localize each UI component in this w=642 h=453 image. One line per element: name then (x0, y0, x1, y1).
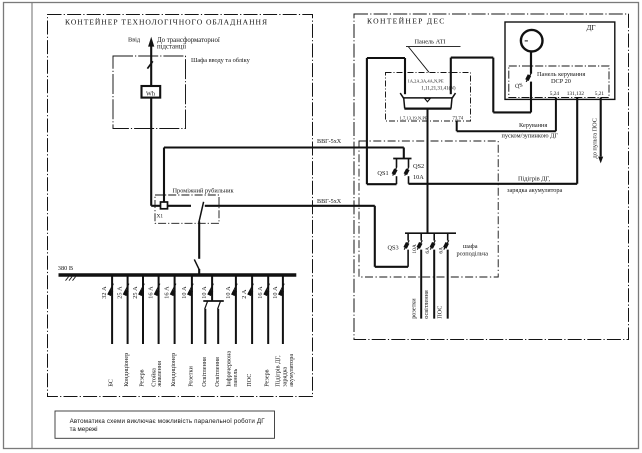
svg-text:Автоматика схеми виключає можл: Автоматика схеми виключає можливість пар… (70, 418, 266, 425)
svg-text:КОНТЕЙНЕР ДЕС: КОНТЕЙНЕР ДЕС (367, 17, 446, 26)
svg-text:5,21: 5,21 (595, 91, 605, 97)
breaker QF1 32 А blade (107, 284, 113, 296)
svg-text:6А: 6А (439, 247, 445, 254)
bus 380V (59, 273, 297, 277)
wire: branch QF4 drop from bus (158, 275, 160, 344)
wire: DCP 5,24 drop (555, 98, 557, 132)
wire: switch to DES container (ВВГ-5хХ lower) (205, 205, 375, 207)
connector X1 (157, 202, 168, 220)
svg-text:380 В: 380 В (58, 265, 73, 272)
svg-text:Панель АТІ: Панель АТІ (415, 38, 446, 45)
wire: branch QF6 drop from bus (191, 275, 193, 344)
breaker 10А (розетки) (417, 233, 423, 318)
container: КОНТЕЙНЕР ТЕХНОЛОГІЧНОГО ОБЛАДНАННЯ (dash-dot boundary) (48, 15, 313, 397)
wire: 73,74 control stub (456, 121, 458, 131)
svg-text:X1: X1 (157, 214, 164, 220)
svg-text:1,11,21,31,41(N): 1,11,21,31,41(N) (421, 87, 456, 92)
wire: generator feed into ATS right input (450, 58, 452, 95)
svg-text:131,132: 131,132 (567, 91, 585, 97)
svg-text:Розетки: Розетки (187, 366, 194, 387)
arrow: up to transformer substation (148, 37, 154, 47)
switch QS3 (403, 233, 409, 267)
svg-text:Освітлення: Освітлення (201, 357, 208, 387)
switch QS blade (generator breaker) (525, 73, 531, 82)
svg-text:пуском/зупинкою ДГ: пуском/зупинкою ДГ (502, 133, 559, 140)
svg-text:Керування: Керування (519, 122, 547, 129)
svg-text:Резерв: Резерв (139, 369, 146, 386)
container: КОНТЕЙНЕР ДЕС (dash-dot boundary) (354, 14, 629, 340)
svg-text:ДГ: ДГ (587, 24, 596, 32)
svg-text:Ввід: Ввід (128, 36, 141, 43)
breaker QF3 25 А blade (138, 284, 144, 296)
svg-text:5,24: 5,24 (550, 91, 560, 97)
svg-text:10 А: 10 А (225, 286, 232, 299)
switch blade onto bus (194, 259, 199, 269)
svg-text:16 А: 16 А (257, 286, 264, 299)
svg-text:Кондиціонер: Кондиціонер (123, 353, 130, 387)
arrow: down to POS console (598, 157, 603, 164)
wire: lower mains cable corner down (374, 206, 376, 267)
wire: branch QF7 drop from bus (211, 275, 213, 301)
wire: generator feed below QS (530, 82, 532, 113)
svg-text:Резерв: Резерв (264, 369, 271, 386)
generator G circle (521, 30, 543, 52)
svg-text:QS1: QS1 (377, 170, 388, 177)
breaker QF8 10 А blade (231, 284, 237, 296)
svg-text:10 А: 10 А (201, 286, 208, 299)
svg-text:10 А: 10 А (181, 286, 188, 299)
breaker 6А (ПОС) (443, 233, 449, 318)
wire: mains feed into QS1/QS2 from upper cable (403, 148, 405, 159)
box: ДГ generator enclosure (solid) (505, 22, 615, 99)
svg-text:Wh: Wh (146, 90, 156, 97)
wire: branch QF9 drop from bus (251, 275, 253, 344)
svg-text:Проміжний рубильник: Проміжний рубильник (173, 188, 235, 195)
node: QS1/QS2 top bar (393, 158, 411, 160)
hatch mark on bus left end (66, 277, 76, 281)
svg-text:ВВГ-5хХ: ВВГ-5хХ (317, 139, 342, 145)
breaker QF4 16 А blade (154, 284, 160, 296)
wire: lower mains run to QS3 (375, 266, 408, 268)
svg-text:підстанції: підстанції (157, 44, 186, 51)
switch blade lighting group at 205.3 (205, 301, 208, 309)
box: шафа розподільча enclosure (dash-dot) (359, 141, 498, 277)
svg-text:Шафа вводу та обліку: Шафа вводу та обліку (191, 57, 251, 64)
wire: generator down to QS (530, 51, 532, 74)
label: Панель АТІ with leader (406, 38, 461, 72)
wire: branch QF5 drop from bus (174, 275, 176, 344)
svg-text:25 А: 25 А (117, 286, 124, 299)
breaker QF11 10 А blade (278, 284, 284, 296)
svg-text:до пульта ПОС: до пульта ПОС (592, 118, 599, 159)
breaker QF9 2 А blade (247, 284, 253, 296)
wire: lighting group line Освітлення (217, 309, 219, 344)
wire: switch down to bus switch (198, 222, 200, 259)
svg-text:2 А: 2 А (241, 289, 248, 299)
wire: branch QF1 drop from bus (111, 275, 113, 344)
wire: mains ATS riser (366, 58, 368, 184)
wire: generator feed riser (492, 58, 494, 113)
wire: branch QF3 drop from bus (142, 275, 144, 344)
wire: into X1 terminal (151, 205, 160, 207)
svg-text:10A: 10A (413, 174, 424, 181)
note box: automation note (55, 411, 275, 438)
svg-text:розподільча: розподільча (457, 250, 489, 257)
ATS changeover symbol U1 (trough) (400, 93, 455, 109)
svg-text:шафа: шафа (463, 243, 478, 250)
wire: branch QF8 drop from bus (235, 275, 237, 344)
wire: blade to bus (198, 269, 200, 274)
svg-text:QS2: QS2 (413, 163, 424, 170)
breaker QF6 10 А blade (187, 284, 193, 296)
wire: control run to DCP 5,24 (457, 130, 556, 132)
svg-text:БС: БС (108, 379, 115, 387)
svg-text:зарядка акумулятора: зарядка акумулятора (507, 187, 563, 194)
svg-text:16 А: 16 А (164, 286, 171, 299)
box: Панель керування DCP 20 (dash-dot) (509, 66, 609, 98)
wire: QS2 output to heater circuit (Підігрів ДГ) (409, 183, 578, 185)
switch QS (intermediate knife switch) blade (199, 202, 204, 222)
wire: X1 to switch (168, 205, 192, 207)
node: distribution bar (405, 232, 456, 234)
node: lighting group bar (203, 300, 224, 302)
switch blade lighting group at 218.2 (218, 301, 221, 309)
svg-text:КОНТЕЙНЕР ТЕХНОЛОГІЧНОГО ОБЛА: КОНТЕЙНЕР ТЕХНОЛОГІЧНОГО ОБЛАДНАННЯ (65, 17, 268, 26)
svg-text:10А: 10А (412, 244, 418, 254)
svg-text:освітлення: освітлення (423, 290, 430, 319)
wire: branch QF10 drop from bus (267, 275, 269, 344)
svg-text:Кондиціонер: Кондиціонер (170, 353, 177, 387)
wire: QS1 output left run (367, 183, 397, 185)
svg-text:ПОС: ПОС (246, 374, 253, 387)
breaker 6А (освітлення) (430, 233, 436, 318)
breaker QF5 16 А blade (170, 284, 176, 296)
wire: mains ATS top run (367, 57, 405, 59)
box: switch enclosure (dash-dot) (155, 195, 219, 223)
svg-text:73,74: 73,74 (453, 116, 464, 121)
svg-text:ПОС: ПОС (437, 306, 444, 319)
svg-text:6А: 6А (425, 247, 431, 254)
tick: cable break mark on input wire (147, 61, 152, 68)
wire: generator feed top run (451, 57, 494, 59)
wire: X1 up-branch vertical (163, 148, 165, 203)
wire: branch QF11 drop from bus (282, 275, 284, 344)
meter Wh (142, 86, 161, 98)
box: ATS panel АТІ (dash-dot) (386, 73, 471, 122)
wire: branch QF2 drop from bus (127, 275, 129, 344)
box: Шафа вводу та обліку (dash-dot) (113, 56, 186, 129)
svg-text:Підігрів ДГ,: Підігрів ДГ, (518, 176, 551, 183)
wire: lighting group line Освітлення (204, 309, 206, 344)
svg-text:16 А: 16 А (148, 286, 155, 299)
switch/breaker QS2 10A (404, 159, 410, 184)
wire: generator feed left run (493, 111, 531, 113)
wire: DCP 131,132 drop to heater run (576, 98, 578, 184)
wire: upper mains cable to DES (ВВГ-5хХ upper) (164, 146, 404, 148)
breaker QF10 16 А blade (263, 284, 269, 296)
svg-text:25 А: 25 А (132, 286, 139, 299)
switch QS1 (392, 159, 398, 185)
svg-text:ВВГ-5хХ: ВВГ-5хХ (317, 199, 342, 205)
wire: ATS output down to distribution bar (427, 109, 429, 234)
svg-text:DCP 20: DCP 20 (551, 78, 571, 85)
breaker QF7 10 А blade (207, 284, 213, 296)
svg-text:Освітлення: Освітлення (214, 357, 221, 387)
svg-text:QS3: QS3 (388, 245, 399, 252)
wire: DCP 5,21 drop to POS console (600, 98, 602, 157)
wire: input riser to transformer substation (150, 44, 152, 86)
svg-text:та мережі: та мережі (70, 426, 98, 433)
svg-text:розетки: розетки (410, 298, 417, 319)
breaker QF2 25 А blade (123, 284, 129, 296)
svg-text:10 А: 10 А (272, 286, 279, 299)
wire: mains into ATS left input (404, 58, 406, 94)
wire: Wh down to X1 (150, 98, 152, 206)
svg-text:32 А: 32 А (101, 286, 108, 299)
